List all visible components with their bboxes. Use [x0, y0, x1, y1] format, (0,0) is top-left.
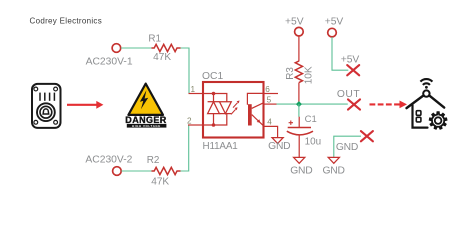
terminal AC230V-2 [85, 154, 132, 175]
svg-text:H11AA1: H11AA1 [203, 141, 239, 152]
svg-text:GND: GND [336, 142, 358, 153]
svg-text:6: 6 [265, 85, 270, 94]
pin 5 [264, 103, 277, 105]
diode D-left (up) [208, 102, 220, 114]
pin 6 [264, 93, 279, 95]
capacitor C1 [287, 114, 321, 157]
wire AC230V-2 to R2 [121, 170, 151, 172]
gear [430, 112, 447, 129]
resistor R1 [148, 33, 180, 63]
photo transistor [248, 104, 252, 125]
roof circle [423, 90, 429, 96]
svg-text:R3: R3 [285, 67, 296, 80]
net label GND with X [336, 131, 373, 153]
svg-text:OC1: OC1 [202, 71, 223, 82]
smart home icon [407, 79, 450, 131]
svg-text:R1: R1 [148, 33, 161, 44]
pin 1 [189, 93, 204, 95]
svg-text:47K: 47K [151, 176, 169, 187]
terminal AC230V-1 [86, 44, 133, 68]
svg-text:GND: GND [322, 165, 344, 176]
wire junction to C1 [298, 104, 300, 117]
OC1 body box [203, 82, 264, 138]
power +5V no.1 [285, 17, 304, 62]
svg-text:1: 1 [190, 85, 195, 94]
junction node [296, 101, 302, 107]
net label +5V with X [341, 55, 360, 76]
svg-text:AC230V-1: AC230V-1 [86, 56, 133, 67]
svg-text:10K: 10K [304, 66, 315, 84]
resistor R3 [285, 61, 315, 103]
pin 4 [264, 126, 278, 137]
wire GND label to ground [334, 136, 361, 157]
svg-text:GND: GND [268, 141, 290, 152]
doorbell buzzer icon [32, 84, 61, 128]
resistor R2 [147, 155, 181, 187]
wire R1 to OC1 pin1 [181, 48, 190, 94]
power +5V no.2 [325, 17, 344, 37]
svg-text:+5V: +5V [341, 55, 360, 66]
house walls [413, 105, 428, 128]
svg-text:4: 4 [267, 117, 272, 126]
photon arrows [231, 101, 240, 115]
svg-text:10u: 10u [305, 137, 321, 148]
wire pin5 to OUT [277, 103, 348, 105]
svg-text:R2: R2 [147, 155, 160, 166]
net label OUT with X [337, 89, 360, 110]
ground under C1 [290, 157, 312, 176]
arrow buzzer to danger [67, 101, 103, 109]
wire AC230V-1 to R1 [121, 47, 152, 49]
svg-text:47K: 47K [153, 52, 171, 63]
wifi arcs [420, 79, 432, 82]
gear knockout [427, 110, 449, 132]
svg-text:AC230V-2: AC230V-2 [85, 154, 132, 165]
pin 2 [188, 124, 203, 126]
svg-text:+5V: +5V [285, 17, 304, 28]
ground right [322, 157, 344, 176]
LED pair rails [203, 94, 227, 126]
wire +5V no.2 to label [332, 37, 348, 70]
wifi dot [425, 86, 428, 89]
danger high voltage sign [125, 84, 167, 129]
polarity plus mark [289, 121, 293, 125]
svg-text:5: 5 [267, 96, 272, 105]
dashed arrow OUT to smart home [370, 101, 408, 109]
window 2 [416, 117, 421, 122]
svg-text:Codrey Electronics: Codrey Electronics [30, 16, 103, 25]
window 1 [416, 111, 421, 116]
junction dots [212, 92, 216, 96]
svg-text:+5V: +5V [325, 17, 344, 28]
svg-text:2: 2 [187, 117, 192, 126]
svg-text:C1: C1 [305, 114, 317, 125]
svg-text:OUT: OUT [337, 89, 360, 100]
svg-text:HIGH VOLTAGE: HIGH VOLTAGE [132, 124, 161, 128]
svg-text:GND: GND [290, 165, 312, 176]
wire R2 to OC1 pin2 [181, 125, 189, 171]
diode D-right (down) [220, 102, 232, 114]
house roof [407, 95, 445, 108]
optocoupler OC1 [187, 71, 278, 152]
ground under pin 4 [268, 138, 290, 152]
